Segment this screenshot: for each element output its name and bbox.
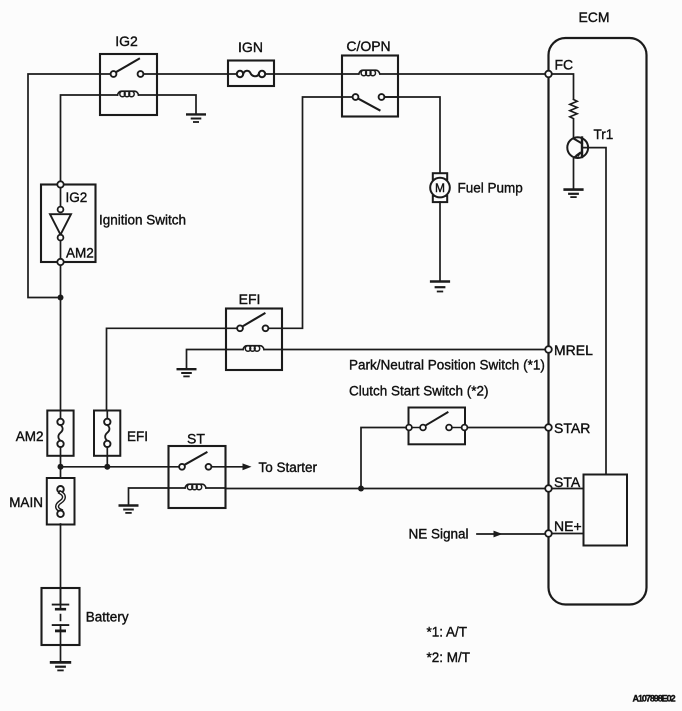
fusible link MAIN [47,478,75,525]
wire: junction rail to ST relay switch [61,466,169,468]
ground: IG2 relay coil [157,95,205,122]
svg-text:To Starter: To Starter [259,460,318,475]
ground: Tr1 emitter [565,190,583,198]
wire: EFI relay switch to EFI fuse [107,328,227,410]
node: to starter arrowhead [243,463,252,470]
fuse IGN [228,61,274,87]
ECM box [549,38,647,605]
wire: battery internal dashes [60,615,62,621]
terminal FC [545,71,552,78]
svg-text:IGN: IGN [238,39,263,55]
svg-text:*1: A/T: *1: A/T [427,625,468,640]
wire: STA terminal to internal block [552,488,584,490]
wire: C/OPN switch to fuel pump [385,97,441,172]
svg-text:*2: M/T: *2: M/T [427,650,471,665]
svg-text:Clutch Start Switch (*2): Clutch Start Switch (*2) [349,384,489,399]
wire: EFI relay coil to ECM MREL terminal [282,349,545,351]
svg-text:Tr1: Tr1 [594,127,614,142]
svg-text:Fuel Pump: Fuel Pump [458,181,523,196]
battery [42,588,80,645]
internal block (inside ECM) [584,475,628,546]
wire: AM2 fuse to junction to MAIN fuse [60,456,62,478]
node: junction dot ignition switch rail [58,295,64,301]
svg-text:IG2: IG2 [115,33,138,49]
wire: EFI relay coil to ground lead [187,350,227,368]
svg-text:IG2: IG2 [66,190,88,205]
ignition switch block [41,181,96,265]
svg-text:Park/Neutral Position Switch (: Park/Neutral Position Switch (*1) [349,358,545,373]
wire: fuel pump to ground [439,202,441,281]
svg-text:EFI: EFI [127,429,148,444]
svg-text:C/OPN: C/OPN [346,38,390,54]
svg-text:A107898E02: A107898E02 [633,694,676,704]
wire: clutch start switch to STAR terminal [465,427,545,429]
svg-text:FC: FC [555,57,574,73]
terminal STA [545,485,552,492]
svg-text:EFI: EFI [239,291,261,307]
wire: battery negative to ground [60,625,62,661]
wire: NE signal arrow line [477,533,545,535]
wire: MAIN fuse to battery [60,524,62,605]
node: junction dot AM2 rail [58,464,64,470]
svg-text:NE Signal: NE Signal [409,527,469,542]
wire: EFI fuse to junction rail [106,456,108,467]
wire: C/OPN switch to EFI relay switch (vertical link) [282,97,342,328]
svg-text:STAR: STAR [554,420,590,436]
svg-text:M: M [435,181,445,195]
relay C/OPN [342,56,398,117]
transistor Tr1 [567,137,606,474]
terminal NE+ [545,530,552,537]
svg-text:Battery: Battery [86,610,129,625]
ground: fuel pump [431,282,449,292]
svg-text:AM2: AM2 [66,246,94,261]
wire: IG2 relay coil to ignition switch IG2 terminal [61,95,101,181]
fuse EFI [94,411,120,457]
svg-text:Ignition Switch: Ignition Switch [99,213,186,228]
wire: IG2 relay switch to IGN fuse [157,73,228,75]
ground: ST relay coil [120,506,138,513]
svg-text:ECM: ECM [578,9,609,25]
wire: clutch start switch to STA junction [361,428,409,489]
wire: C/OPN relay coil to ECM FC terminal [398,73,545,75]
wire: ignition switch AM2 terminal down to AM2 fuse [60,266,62,411]
relay IG2 [100,54,157,115]
ground: battery [51,662,70,670]
wire: to starter arrow line [226,466,244,468]
node: junction dot EFI rail [104,464,110,470]
svg-text:STA: STA [554,474,581,490]
terminal STAR [545,424,552,431]
wire: IGN fuse to C/OPN relay coil [274,73,342,75]
svg-text:MREL: MREL [554,342,593,358]
wire: resistor to Tr1 collector [573,120,575,138]
svg-text:MAIN: MAIN [9,495,43,510]
relay ST [169,446,226,508]
relay EFI [226,309,282,371]
wire: FC to resistor [552,74,574,99]
fuse AM2 [47,411,73,457]
wire: Tr1 emitter to ground [574,157,575,189]
wire: ST relay coil to ECM STA terminal [226,488,546,490]
terminal MREL [545,346,552,353]
resistor (inside ECM) [570,100,577,119]
wire: ST relay coil ground lead [129,488,169,505]
node: junction dot STA / clutch switch [358,486,364,492]
svg-text:AM2: AM2 [16,429,44,444]
wire: left rail from IG2 relay switch down to AM2 junction [28,74,100,298]
node: NE signal arrowhead [494,531,503,538]
ground: EFI relay coil [178,369,196,376]
svg-text:ST: ST [187,431,205,447]
wire: NE+ terminal to internal block [552,533,584,535]
svg-text:NE+: NE+ [554,518,582,534]
fuel pump motor [430,173,450,202]
clutch start switch [406,408,467,445]
